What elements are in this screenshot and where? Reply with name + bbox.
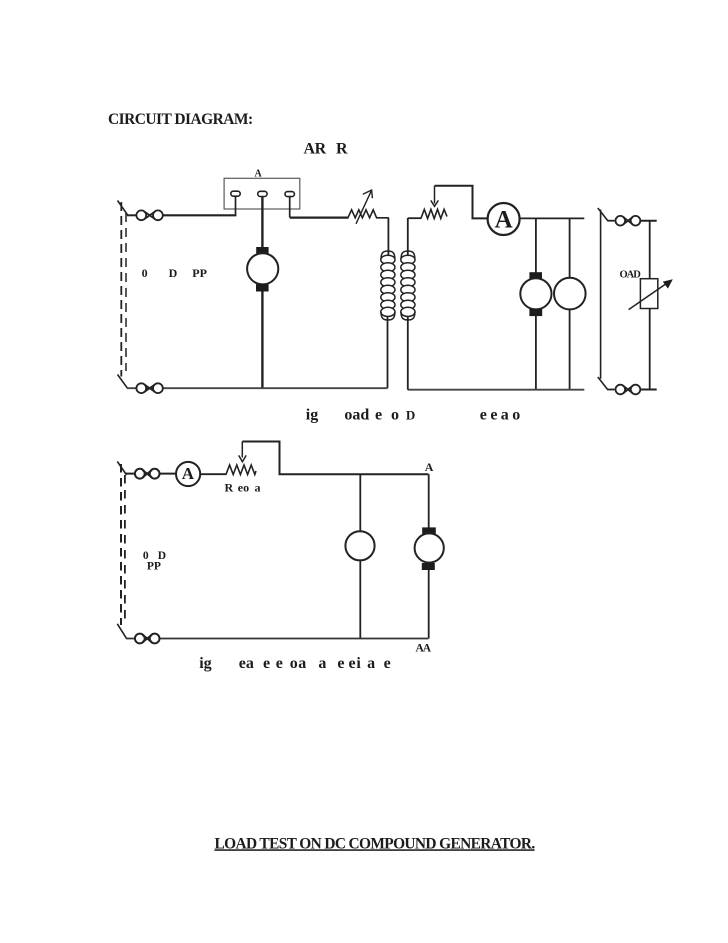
generator M2 brush bottom — [529, 309, 542, 316]
wire stub bottom-right — [608, 389, 615, 391]
motor M1 armature circle — [247, 253, 278, 284]
wire down to generator M4 — [428, 474, 430, 528]
svg-text:LOAD TEST ON DC COMPOUND GENER: LOAD TEST ON DC COMPOUND GENERATOR. — [215, 835, 536, 852]
heading CIRCUIT DIAGRAM: — [108, 111, 253, 128]
svg-text:e: e — [276, 655, 283, 672]
stem from terminal M to motor — [261, 197, 263, 248]
title LOAD TEST ON DC COMPOUND GENERATOR. — [215, 835, 536, 852]
label A (starter) — [255, 168, 263, 179]
caption 2 (faded): ig ea e e oa a e ei a e — [199, 655, 391, 672]
supply bracket left (dashed) — [118, 201, 128, 389]
label OAD — [620, 269, 642, 280]
svg-text:e: e — [480, 407, 487, 424]
svg-text:A: A — [495, 207, 513, 234]
generator M4 brush top — [422, 527, 436, 534]
svg-text:R: R — [336, 141, 348, 158]
svg-text:D: D — [406, 408, 415, 423]
svg-text:ea: ea — [239, 655, 254, 672]
fuse F6 (bottom) — [135, 634, 160, 644]
caption 1 (faded): ig oad e o D / e e a o — [306, 407, 521, 424]
rheostat R4 wiper arrow (down) — [239, 442, 247, 462]
stem from terminal L — [235, 196, 237, 216]
svg-text:PP: PP — [147, 561, 161, 573]
svg-text:a: a — [255, 480, 261, 494]
rheostat R2 wiper arrow (down) — [431, 186, 439, 207]
wire F1 to starter terminal L — [163, 214, 237, 216]
bottom bus primary — [127, 387, 388, 389]
svg-text:ig: ig — [306, 407, 318, 424]
svg-text:A: A — [182, 464, 195, 483]
svg-text:AA: AA — [416, 642, 432, 654]
svg-text:i: i — [356, 655, 361, 672]
svg-text:oad: oad — [344, 407, 369, 424]
generator M2 brush top — [529, 272, 542, 280]
svg-text:eo: eo — [238, 480, 249, 494]
link wire R2 wiper to ammeter A1 — [435, 186, 488, 219]
fuse F3 (bottom-right) — [616, 385, 641, 395]
fuse F2 (top-right) — [616, 216, 641, 226]
svg-text:o: o — [290, 655, 298, 672]
svg-text:0 D: 0 D — [142, 266, 187, 280]
svg-text:PP: PP — [192, 266, 207, 280]
wire drop to generator M2 — [535, 218, 537, 272]
svg-text:OAD: OAD — [620, 269, 642, 280]
label 0 D PP (supply 1) — [142, 266, 207, 280]
svg-text:AR: AR — [304, 141, 327, 158]
motor M1 brush bottom — [256, 284, 269, 291]
field coil L2 (right helix) — [401, 251, 415, 320]
ammeter A2 — [176, 462, 200, 486]
starter terminal M — [258, 191, 267, 196]
svg-text:o: o — [391, 407, 399, 424]
svg-text:e: e — [337, 655, 344, 672]
load R3 arrow — [629, 279, 673, 309]
svg-text:e: e — [375, 407, 382, 424]
svg-text:ig: ig — [199, 655, 211, 672]
field coil L1 (left helix) — [381, 251, 395, 320]
motor M1 brush top — [256, 247, 268, 254]
rheostat R1 zigzag — [348, 210, 389, 218]
svg-text:A: A — [255, 168, 263, 179]
svg-text:A: A — [425, 460, 434, 474]
wire motor to bottom bus — [261, 292, 263, 389]
stem from terminal R — [289, 197, 291, 218]
wire down to load R3 — [649, 221, 651, 279]
rheostat R4 zigzag — [226, 465, 256, 475]
voltmeter V1 circle — [345, 531, 374, 560]
wire stub supply to fuse F1 — [127, 214, 137, 216]
exciter M3 circle — [554, 278, 586, 310]
node label AA — [416, 642, 432, 654]
load bracket right (solid) — [598, 208, 608, 390]
svg-text:a: a — [318, 655, 326, 672]
wire coil L1 to bottom bus — [387, 316, 389, 388]
bottom bus 2 — [126, 638, 429, 640]
generator M2 armature circle — [520, 278, 551, 309]
wire A1 to right — [520, 217, 585, 219]
starter terminal R — [285, 192, 294, 197]
svg-text:R: R — [225, 480, 234, 494]
wire F2 to load line — [640, 220, 656, 222]
label R eo a (rheostat) — [225, 480, 261, 494]
node label A — [425, 460, 434, 474]
svg-text:CIRCUIT DIAGRAM:: CIRCUIT DIAGRAM: — [108, 111, 253, 128]
svg-text:e: e — [263, 655, 270, 672]
svg-text:o: o — [512, 407, 520, 424]
wire F5 to ammeter A2 — [160, 473, 177, 475]
wire coil L2 up to rheostat R2 — [407, 218, 409, 255]
wire R1 down to coil L1 — [387, 218, 389, 255]
wire A2 to rheostat R4 — [200, 473, 227, 475]
rheostat R2 zigzag — [421, 209, 447, 218]
wire M2 to bottom bus — [535, 316, 537, 390]
fuse F4 (bottom-left) — [136, 383, 162, 393]
starter terminal L — [231, 191, 240, 196]
starter box — [224, 178, 300, 209]
ammeter A1 — [488, 203, 520, 235]
svg-text:e: e — [384, 655, 391, 672]
wire stub to fuse F2 — [608, 220, 615, 222]
svg-text:a: a — [298, 655, 306, 672]
svg-text:a: a — [501, 407, 509, 424]
wire R3 to bottom — [649, 309, 651, 390]
link wire R4 wiper to output — [242, 442, 428, 475]
wire coil L2 to bottom bus — [407, 316, 409, 390]
load resistor R3 (box) — [640, 279, 657, 309]
wire drop through exciter M3 — [569, 218, 571, 389]
bottom bus secondary — [408, 389, 585, 391]
svg-text:a: a — [367, 655, 375, 672]
wire F3 stub — [640, 389, 656, 391]
label 0 D / PP (supply 2) — [143, 550, 166, 573]
fuse F1 (top-left) — [136, 210, 162, 220]
svg-text:e: e — [490, 407, 497, 424]
wire to rheostat R2 — [408, 217, 422, 219]
wire M4 to bottom bus — [428, 570, 430, 639]
generator M4 armature circle — [415, 533, 444, 562]
rheostat R1 arrow — [356, 190, 372, 224]
wire starter R to rheostat R1 — [290, 217, 349, 219]
svg-text:e: e — [349, 655, 356, 672]
supply bracket left 2 (dashed) — [117, 462, 126, 639]
fuse F5 — [135, 469, 160, 479]
generator M4 brush bottom — [422, 563, 435, 570]
label AR R (starter label) — [304, 141, 349, 158]
wire drop to voltmeter V1 — [359, 474, 361, 638]
wire stub supply2 to fuse F5 — [126, 473, 135, 475]
